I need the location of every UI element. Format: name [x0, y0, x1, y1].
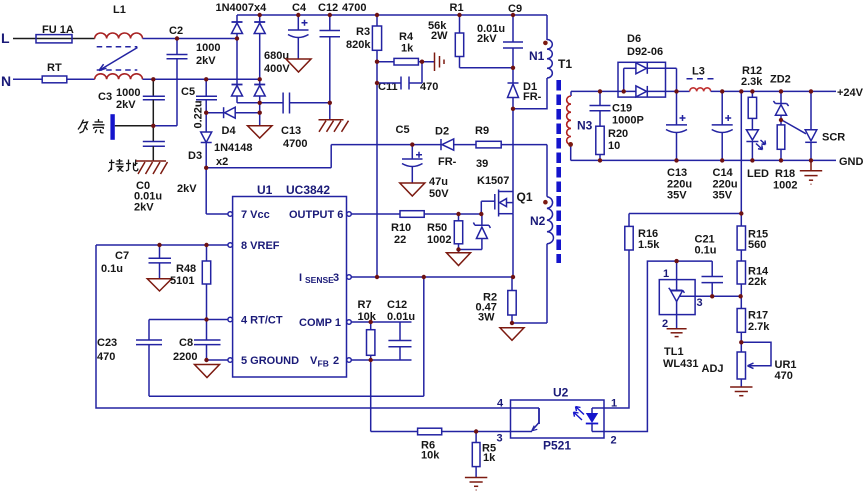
- svg-text:400V: 400V: [264, 63, 290, 75]
- svg-text:OUTPUT 6: OUTPUT 6: [289, 209, 343, 221]
- svg-text:C13: C13: [281, 125, 301, 137]
- earth symbol below TL431: [667, 329, 687, 337]
- svg-text:8 VREF: 8 VREF: [241, 240, 280, 252]
- svg-text:R48: R48: [176, 263, 196, 275]
- svg-text:FR-: FR-: [438, 156, 457, 168]
- node RT/CT junction: [204, 317, 208, 321]
- IC U1 UC3842 box: [233, 183, 347, 377]
- svg-text:0.01u: 0.01u: [387, 311, 415, 323]
- svg-text:4: 4: [497, 398, 504, 410]
- svg-text:47u: 47u: [429, 176, 448, 188]
- winding N2: [530, 145, 553, 323]
- ground triangle below C4: [286, 59, 311, 72]
- capacitor C5 47u 50V: [396, 124, 450, 200]
- svg-text:C9: C9: [508, 3, 522, 15]
- svg-text:10k: 10k: [358, 311, 377, 323]
- node ref row junctions: [710, 294, 714, 298]
- capacitor C9 0.01u 2kV: [477, 3, 523, 83]
- svg-text:3: 3: [697, 297, 703, 309]
- resistor R18 1002: [773, 125, 797, 192]
- capacitor C3: [98, 79, 165, 141]
- ground triangle below C8: [195, 365, 220, 378]
- wire DC+ top rail: [237, 14, 547, 16]
- svg-text:R9: R9: [475, 125, 489, 137]
- ground triangle below R2: [500, 328, 524, 341]
- svg-text:4 RT/CT: 4 RT/CT: [241, 315, 283, 327]
- rectifier D6 D92-06: [618, 33, 677, 97]
- node AC1 junctions: [175, 36, 179, 40]
- svg-text:Q1: Q1: [517, 190, 533, 204]
- opto transistor: [511, 408, 540, 432]
- svg-text:WL431: WL431: [663, 358, 698, 370]
- node R16 row junction: [739, 211, 743, 215]
- wire Q1 source column: [512, 214, 514, 277]
- wire VFB to R6 column: [370, 360, 372, 432]
- capacitor C4 680u 400V: [264, 2, 309, 75]
- resistor R48 5101: [170, 245, 211, 320]
- capacitor C2: [153, 25, 220, 126]
- svg-text:R1: R1: [450, 2, 464, 14]
- svg-text:TL1: TL1: [664, 346, 684, 358]
- capacitor C7 0.1u: [101, 245, 171, 279]
- wire AC1 top line: [143, 38, 238, 40]
- svg-text:ADJ: ADJ: [702, 363, 724, 375]
- capacitor C11 470: [377, 62, 438, 93]
- svg-text:D92-06: D92-06: [627, 46, 663, 58]
- chassis 外壳 bar symbol: [110, 114, 153, 140]
- phase dot N1: [543, 41, 548, 46]
- svg-text:35V: 35V: [667, 190, 687, 202]
- node VFB junction: [369, 358, 373, 362]
- diode D1 FR-: [508, 81, 542, 109]
- node +24V rail junctions: [598, 89, 602, 93]
- svg-text:2kV: 2kV: [196, 55, 216, 67]
- resistor R9 39: [475, 125, 547, 170]
- node L label: [1, 30, 10, 46]
- svg-text:680u: 680u: [264, 50, 289, 62]
- svg-text:560: 560: [748, 239, 766, 251]
- svg-text:U2: U2: [553, 386, 569, 400]
- svg-text:K1507: K1507: [477, 175, 509, 187]
- resistor R16 1.5k: [625, 214, 660, 252]
- wire VFB row: [351, 359, 411, 361]
- wire V-minus line: [237, 102, 283, 104]
- resistor R4 1k: [377, 31, 435, 65]
- capacitor C23 470: [97, 337, 162, 363]
- svg-text:10: 10: [608, 140, 620, 152]
- svg-text:1000: 1000: [116, 87, 140, 99]
- svg-text:3: 3: [497, 433, 503, 445]
- fuse FU 1A: [36, 24, 74, 43]
- thermistor RT: [13, 62, 95, 83]
- svg-text:2W: 2W: [431, 30, 448, 42]
- svg-text:R4: R4: [399, 31, 414, 43]
- wire drain column: [512, 109, 514, 192]
- optocoupler U2 P521: [497, 386, 618, 453]
- zener ZD2: [770, 74, 791, 125]
- earth hatched symbol below C12: [319, 120, 349, 132]
- transformer core: [556, 80, 561, 263]
- node N line junctions: [151, 77, 155, 81]
- wire output GND rail: [571, 159, 836, 161]
- earth symbol below R5: [465, 478, 487, 491]
- wire N3 top to D6: [571, 90, 636, 92]
- pin 6 OUTPUT: [289, 209, 351, 221]
- pin 7 Vcc: [228, 209, 270, 221]
- svg-text:C19: C19: [612, 103, 632, 115]
- svg-text:1k: 1k: [483, 452, 496, 464]
- wire opto pin2 to TL431 cathode line: [604, 261, 712, 431]
- svg-text:2kV: 2kV: [134, 202, 154, 214]
- svg-text:C2: C2: [169, 25, 183, 37]
- earth symbol below UR1: [730, 387, 752, 396]
- capacitor C21 0.1u: [695, 234, 724, 297]
- svg-text:C8: C8: [179, 337, 193, 349]
- capacitor C5 0.22u: [177, 79, 217, 195]
- svg-text:P521: P521: [543, 439, 571, 453]
- svg-text:T1: T1: [558, 57, 572, 71]
- svg-text:R3: R3: [356, 26, 370, 38]
- wire divider column from +24V: [740, 91, 742, 226]
- pin 2 VFB: [310, 355, 351, 369]
- node R2 bottom junction: [510, 321, 514, 325]
- winding N1: [529, 15, 552, 78]
- svg-text:470: 470: [97, 351, 115, 363]
- capacitor C19 1000P: [590, 91, 644, 126]
- svg-text:C12: C12: [387, 299, 407, 311]
- svg-text:SCR: SCR: [822, 132, 845, 144]
- phase dot N3: [568, 142, 573, 147]
- svg-text:L1: L1: [113, 4, 126, 16]
- node gate row junctions: [456, 212, 460, 216]
- svg-text:1002: 1002: [427, 234, 451, 246]
- svg-text:L: L: [1, 30, 10, 46]
- ground triangle below C7: [147, 279, 171, 291]
- phase dot N2: [543, 200, 548, 205]
- earth hatched symbol below C0: [136, 161, 168, 174]
- wire I-sense slope column: [423, 277, 425, 396]
- node COMP junction: [369, 320, 373, 324]
- svg-text:FU 1A: FU 1A: [42, 24, 74, 36]
- resistor R20 10: [596, 126, 628, 160]
- svg-text:22k: 22k: [748, 276, 767, 288]
- node R5 junction: [474, 429, 478, 433]
- capacitor C12 4700: [318, 2, 366, 120]
- svg-text:0.22u: 0.22u: [193, 100, 205, 128]
- svg-text:1N4007x4: 1N4007x4: [216, 2, 268, 14]
- label 外壳 (drawn strokes): [78, 119, 105, 133]
- node GND rail junctions: [598, 158, 602, 162]
- resistor R12 2.3k: [741, 65, 763, 118]
- wire R16 top row: [629, 213, 741, 215]
- svg-text:1: 1: [663, 268, 669, 280]
- svg-text:D6: D6: [627, 33, 641, 45]
- svg-text:LED: LED: [747, 168, 769, 180]
- svg-text:C13: C13: [667, 167, 687, 179]
- svg-text:7 Vcc: 7 Vcc: [241, 209, 270, 221]
- wire +24V rail left: [677, 90, 690, 92]
- resistor R10 22: [351, 211, 481, 246]
- ground triangle below R50: [447, 253, 471, 266]
- svg-text:2kV: 2kV: [177, 183, 197, 195]
- svg-text:2: 2: [333, 355, 339, 367]
- resistor R7 10k: [358, 299, 377, 360]
- node C5 47u junction: [410, 142, 414, 146]
- svg-text:1000: 1000: [196, 42, 220, 54]
- svg-text:C5: C5: [181, 86, 195, 98]
- svg-text:1002: 1002: [773, 180, 797, 192]
- svg-text:0.1u: 0.1u: [101, 263, 123, 275]
- svg-text:D2: D2: [435, 126, 449, 138]
- svg-text:N3: N3: [577, 119, 593, 133]
- svg-text:UC3842: UC3842: [286, 183, 330, 197]
- svg-text:4700: 4700: [342, 2, 366, 14]
- resistor R2 0.47 3W: [476, 277, 548, 324]
- svg-text:L3: L3: [692, 66, 705, 78]
- svg-text:N1: N1: [529, 49, 545, 63]
- wire GROUND pin row: [207, 359, 228, 361]
- capacitor C13 4700 (primary): [281, 93, 330, 151]
- wire RT/CT row and loop: [149, 320, 424, 397]
- shunt regulator TL1 WL431: [659, 261, 740, 370]
- svg-text:+24V: +24V: [837, 87, 864, 99]
- svg-text:1000P: 1000P: [612, 115, 644, 127]
- svg-text:2kV: 2kV: [477, 33, 497, 45]
- transformer T1 label: [558, 57, 572, 71]
- node R1/C9 junction: [511, 66, 515, 70]
- svg-text:5101: 5101: [170, 275, 194, 287]
- node D4 row junctions: [204, 111, 208, 115]
- svg-text:39: 39: [476, 158, 488, 170]
- svg-text:RT: RT: [47, 62, 62, 74]
- svg-text:R7: R7: [358, 299, 372, 311]
- svg-text:50V: 50V: [429, 188, 449, 200]
- node I-sense junctions: [375, 275, 379, 279]
- svg-text:FR-: FR-: [523, 91, 542, 103]
- diode D2 FR-: [435, 126, 476, 169]
- svg-text:R17: R17: [748, 310, 768, 322]
- svg-text:1.5k: 1.5k: [638, 239, 660, 251]
- svg-text:D4: D4: [222, 125, 237, 137]
- svg-text:C12: C12: [318, 2, 338, 14]
- zener diode at Q1 gate: [459, 214, 491, 250]
- wire L input: [13, 38, 95, 40]
- node R50 bottom junction: [456, 247, 460, 251]
- svg-text:D3: D3: [188, 150, 202, 162]
- node TL431 cathode junction: [674, 259, 678, 263]
- svg-text:C14: C14: [713, 167, 734, 179]
- svg-text:R10: R10: [391, 222, 411, 234]
- wire N line: [143, 78, 260, 80]
- resistor R1 56k 2W: [428, 2, 513, 68]
- svg-text:0.1u: 0.1u: [695, 245, 717, 257]
- svg-text:FB: FB: [318, 359, 329, 369]
- node GROUND junction: [204, 358, 208, 362]
- node ZD2/R18 junction: [779, 118, 783, 122]
- svg-text:SENSE: SENSE: [305, 275, 334, 285]
- thyristor SCR: [783, 91, 845, 160]
- svg-text:35V: 35V: [713, 190, 733, 202]
- label 1N4007x4: [216, 2, 268, 14]
- inductor L3: [687, 66, 717, 92]
- wire COMP row: [351, 321, 411, 323]
- resistor R6 10k: [371, 428, 511, 461]
- pin 1 COMP: [299, 317, 351, 329]
- svg-text:COMP 1: COMP 1: [299, 317, 341, 329]
- node C11 junction: [375, 81, 379, 85]
- node R4 row junctions: [375, 60, 379, 64]
- svg-text:N: N: [1, 73, 11, 89]
- wire +24V rail: [711, 87, 864, 99]
- label GND: [839, 156, 864, 168]
- svg-text:3W: 3W: [478, 312, 495, 324]
- resistor R14 22k: [737, 261, 769, 309]
- earth symbol below SCR: [800, 160, 822, 184]
- diode D3 1N4148: [188, 132, 253, 168]
- svg-text:2.7k: 2.7k: [748, 321, 770, 333]
- pin 8 VREF: [228, 240, 280, 252]
- ground triangle below bridge: [248, 126, 273, 138]
- capacitor C12 0.01u (comp): [387, 299, 415, 360]
- winding N3: [567, 91, 593, 160]
- diode bridge top-right: [254, 15, 265, 85]
- svg-text:22: 22: [394, 234, 406, 246]
- svg-text:1k: 1k: [401, 43, 414, 55]
- pin 4 RT/CT: [228, 315, 283, 327]
- svg-text:C7: C7: [115, 250, 129, 262]
- svg-text:GND: GND: [839, 156, 864, 168]
- node V-minus junctions: [258, 101, 262, 105]
- resistor R17 2.7k: [737, 309, 770, 353]
- earth sideways symbol at R4: [435, 53, 445, 72]
- LED: [746, 118, 769, 180]
- node D1 junction: [511, 107, 515, 111]
- wire Vcc feed from D3: [206, 145, 331, 214]
- svg-text:C5: C5: [396, 124, 410, 136]
- wire I-sense row: [351, 276, 513, 278]
- diode bridge top-left: [232, 15, 243, 85]
- svg-text:4700: 4700: [283, 138, 307, 150]
- label 接地 (drawn strokes): [108, 159, 138, 172]
- wire opto pin1 to R16 column: [604, 250, 629, 408]
- diode D4 1N4148: [206, 107, 260, 137]
- opto LED: [574, 407, 605, 432]
- node N label: [1, 73, 11, 89]
- svg-text:10k: 10k: [421, 450, 440, 462]
- svg-text:R50: R50: [427, 222, 447, 234]
- ground triangle below C5 47u: [400, 183, 425, 196]
- pin 3 ISENSE: [299, 272, 351, 285]
- svg-text:5 GROUND: 5 GROUND: [241, 355, 299, 367]
- node Vcc feed junction: [204, 166, 208, 170]
- svg-text:470: 470: [775, 370, 793, 382]
- svg-text:x2: x2: [216, 156, 228, 168]
- svg-text:ZD2: ZD2: [770, 74, 791, 86]
- resistor R15 560: [737, 226, 768, 261]
- svg-text:820k: 820k: [346, 39, 371, 51]
- svg-text:2.3k: 2.3k: [741, 76, 763, 88]
- svg-text:I: I: [299, 272, 302, 284]
- svg-text:1N4148: 1N4148: [214, 142, 253, 154]
- capacitor C13 220u 35V: [666, 91, 692, 201]
- node VREF junctions: [157, 243, 161, 247]
- svg-text:470: 470: [420, 81, 438, 93]
- wire D1 junction to N1 bottom: [513, 78, 547, 109]
- svg-text:2: 2: [611, 435, 617, 447]
- svg-text:C4: C4: [292, 2, 307, 14]
- resistor R50 1002: [427, 214, 463, 253]
- inductor L1 common-mode choke: [95, 4, 143, 79]
- diode bridge bottom-right: [254, 85, 265, 126]
- pin 5 GROUND: [228, 355, 299, 367]
- wire left outer loop: [96, 245, 511, 408]
- wire VREF row: [96, 244, 228, 246]
- capacitor C8 2200: [173, 320, 221, 364]
- resistor R3 820k: [346, 15, 382, 277]
- svg-text:U1: U1: [257, 183, 273, 197]
- svg-text:R20: R20: [608, 128, 628, 140]
- node chassis junction: [151, 124, 155, 128]
- transistor Q1 K1507: [477, 175, 533, 217]
- capacitor C0: [134, 142, 165, 214]
- potentiometer UR1 470: [702, 342, 797, 387]
- svg-text:2200: 2200: [173, 351, 197, 363]
- wire aux Vcc row: [331, 144, 441, 146]
- svg-text:R18: R18: [775, 168, 795, 180]
- svg-text:C3: C3: [98, 91, 112, 103]
- node R17 bottom junction: [739, 340, 743, 344]
- svg-text:N2: N2: [530, 214, 546, 228]
- svg-text:C23: C23: [97, 337, 117, 349]
- node top rail junctions: [258, 13, 262, 17]
- resistor R5 1k: [472, 432, 496, 478]
- capacitor C14 220u 35V: [712, 91, 738, 201]
- svg-text:2kV: 2kV: [116, 99, 136, 111]
- svg-text:3: 3: [333, 272, 339, 284]
- diode bridge bottom-left: [232, 85, 243, 103]
